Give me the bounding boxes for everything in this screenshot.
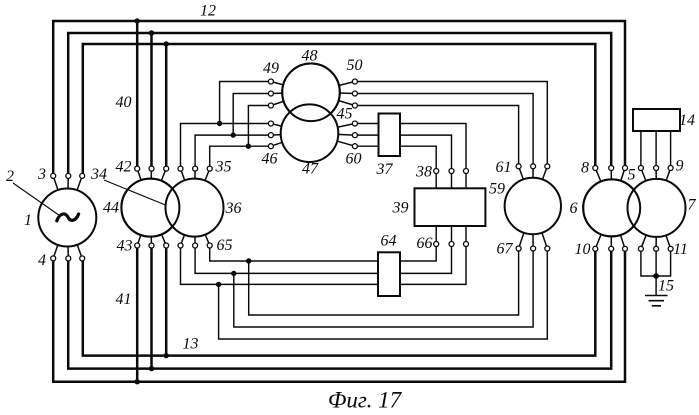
wire terminal 46-2 to terminal 35-2 (195, 135, 271, 169)
svg-text:35: 35 (215, 159, 232, 176)
svg-text:9: 9 (676, 158, 684, 175)
wire terminal 11-1 to star point (641, 249, 656, 276)
svg-text:3: 3 (37, 166, 46, 183)
stubs machine 44 terminals (137, 169, 166, 208)
terminal row 67 (516, 246, 521, 251)
svg-text:7: 7 (688, 197, 697, 214)
junction star point near ground (653, 273, 659, 279)
wire bus 12 phase 1 (generator terminal 3-1 to machine 6 terminal 8-3) (53, 21, 625, 175)
machine 6 (583, 179, 640, 236)
svg-text:41: 41 (116, 291, 132, 308)
terminal column 50 (352, 79, 357, 84)
machine 59 (505, 178, 561, 234)
wire loop node 65-2 to terminal 67-2 (234, 249, 533, 328)
svg-text:10: 10 (575, 241, 591, 258)
terminal column 45-60 (352, 121, 357, 126)
wire terminal 66-2 stub to block 39 (451, 225, 453, 244)
wire block 14 lead 3 to terminal 9-3 (670, 131, 672, 168)
svg-text:6: 6 (570, 200, 578, 217)
wire bus 12 phase 3 (83, 44, 596, 175)
svg-text:48: 48 (302, 48, 318, 65)
block 64 (378, 252, 400, 296)
svg-text:43: 43 (117, 238, 133, 255)
wire bus 13 phase 1 (generator terminal 4-1 to machine 6 terminal 10-3) (53, 251, 625, 382)
leader line label 34 (104, 180, 165, 205)
wire terminal 45-2 through block 37 to terminal 38-2 (355, 135, 452, 171)
svg-text:49: 49 (263, 60, 279, 77)
wire 40 phase 2 (150, 33, 153, 167)
terminal row 11 (638, 246, 643, 251)
junction bus 13 / wire 41 (135, 379, 140, 384)
terminal row 61 (516, 164, 521, 169)
stubs machine 36 terminals (181, 169, 210, 208)
svg-text:11: 11 (673, 241, 688, 258)
terminal row 66 (434, 242, 439, 247)
wire 41 phase 2 (150, 247, 153, 369)
machine 7 (628, 179, 686, 237)
terminal column 49 (268, 79, 273, 84)
junction bus 12 / wire 40 (135, 18, 140, 23)
wire terminal 46-3 to terminal 35-3 (210, 146, 271, 168)
svg-text:46: 46 (262, 151, 278, 168)
wire terminal 50-1 to terminal 61-3 (355, 82, 547, 167)
wire terminal 66-2 through block 64 to terminal 65-2 (195, 244, 451, 273)
terminal row 43 (135, 243, 140, 248)
junction 65 tee nodes (246, 258, 251, 263)
machine 36 (166, 179, 224, 237)
wire 41 phase 3 (165, 247, 168, 356)
svg-text:61: 61 (496, 159, 512, 176)
svg-text:12: 12 (200, 3, 216, 20)
wire bus 12 phase 2 (68, 33, 611, 175)
block 39 (415, 188, 486, 226)
svg-text:13: 13 (183, 336, 199, 353)
terminal column 46 (268, 121, 273, 126)
machine 6 outline restored (583, 179, 640, 236)
svg-text:40: 40 (116, 94, 132, 111)
terminal row 3 (51, 173, 56, 178)
wire terminal 49-3 tee to node 46-3 (248, 106, 271, 147)
svg-text:8: 8 (581, 160, 589, 177)
svg-text:34: 34 (90, 166, 107, 183)
svg-text:4: 4 (38, 252, 46, 269)
wire terminal 66-3 through block 64 to terminal 65-1 (181, 244, 467, 284)
wire terminal 38-1 stub to block 39 (435, 171, 437, 190)
wire 40 phase 3 (165, 44, 168, 167)
svg-text:42: 42 (116, 159, 132, 176)
wire 41 phase 1 (terminal 43-1 to bus 13) (136, 247, 139, 382)
wire loop node 65-3 to terminal 67-1 (249, 249, 519, 316)
wire block 14 lead 1 to terminal 9-1 (640, 131, 642, 168)
terminal row 4 (51, 256, 56, 261)
wire terminal 11-3 to star point (656, 249, 671, 276)
machine 48 (282, 64, 340, 122)
wire bus 13 phase 2 (68, 251, 611, 369)
svg-text:15: 15 (658, 278, 674, 295)
svg-text:Фиг. 17: Фиг. 17 (328, 388, 403, 413)
wire terminal 66-3 stub to block 39 (465, 225, 467, 244)
ground 15 (645, 296, 668, 306)
svg-text:45: 45 (337, 106, 353, 123)
AC source symbol inside generator 1 (57, 214, 79, 221)
wire terminal 49-2 tee to node 46-2 (233, 94, 271, 136)
terminal row 38 (434, 169, 439, 174)
terminal row 8 (593, 166, 598, 171)
svg-text:36: 36 (225, 200, 242, 217)
wire terminal 50-2 to terminal 61-2 (355, 94, 533, 167)
svg-text:14: 14 (679, 112, 695, 129)
svg-text:39: 39 (392, 200, 409, 217)
machine 48 outline restored (282, 64, 340, 122)
terminal row 65 (178, 243, 183, 248)
stubs generator 1 terminals (53, 176, 82, 218)
svg-text:59: 59 (489, 181, 505, 198)
svg-text:50: 50 (347, 57, 363, 74)
svg-text:44: 44 (103, 200, 119, 217)
wire terminal 11-2 to ground (655, 249, 657, 296)
generator 1 (38, 189, 96, 247)
stubs machine 59 terminals (519, 166, 548, 206)
terminal row 9 (638, 166, 643, 171)
wire terminal 49-1 tee to node 46-1 (220, 82, 271, 124)
wire terminal 45-3 through block 37 to terminal 38-1 (355, 146, 436, 171)
stubs machine 47 terminals (271, 124, 310, 147)
wire bus 13 phase 3 (83, 251, 596, 356)
wire terminal 46-1 to terminal 35-1 (181, 124, 271, 169)
svg-text:64: 64 (381, 233, 397, 250)
machine 44 outline restored (121, 179, 179, 237)
wire terminal 66-1 stub to block 39 (435, 225, 437, 244)
wire terminal 38-3 stub to block 39 (465, 171, 467, 190)
stubs machine 48 terminals (271, 82, 311, 106)
svg-text:1: 1 (24, 212, 32, 229)
block 37 (379, 114, 401, 157)
svg-text:2: 2 (6, 168, 14, 185)
junction 49 tee nodes (217, 121, 222, 126)
wire terminal 38-2 stub to block 39 (451, 171, 453, 190)
wire loop node 65-1 to terminal 67-3 (219, 249, 548, 340)
wire terminal 66-1 through block 64 to terminal 65-3 (210, 244, 437, 261)
terminal row 42 (135, 166, 140, 171)
svg-text:67: 67 (497, 241, 514, 258)
leader line label 2 (13, 183, 60, 216)
svg-text:5: 5 (628, 167, 636, 184)
svg-text:47: 47 (302, 161, 319, 178)
machine 44 (121, 179, 179, 237)
svg-text:37: 37 (376, 161, 394, 178)
machine 47 (281, 104, 339, 162)
stubs machine 6 terminals (595, 168, 625, 208)
block 14 (633, 109, 680, 131)
wire 40 phase 1 (bus 12 to terminal 42-1) (136, 21, 139, 167)
terminal row 35 (178, 166, 183, 171)
svg-text:66: 66 (417, 235, 433, 252)
svg-text:38: 38 (415, 164, 432, 181)
svg-text:65: 65 (217, 237, 233, 254)
svg-text:60: 60 (346, 151, 362, 168)
wire terminal 45-1 through block 37 to terminal 38-3 (355, 124, 466, 172)
wire block 14 lead 2 to terminal 9-2 (655, 131, 657, 168)
stubs machine 7 terminals (641, 168, 671, 208)
wire terminal 50-3 to terminal 61-1 (355, 106, 519, 167)
terminal row 10 (593, 246, 598, 251)
